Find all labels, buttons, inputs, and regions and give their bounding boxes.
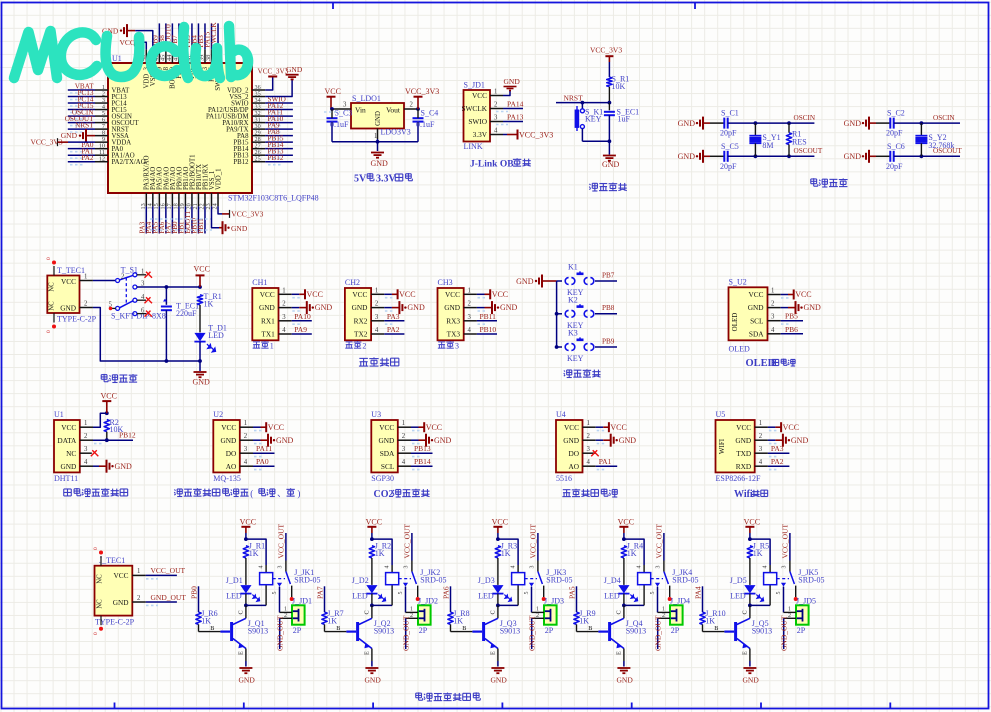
U1 bottom pin 14 PA4/AO bbox=[152, 193, 154, 206]
svg-text:VCC: VCC bbox=[352, 290, 367, 299]
svg-text:GND: GND bbox=[678, 119, 696, 128]
svg-text:VCC: VCC bbox=[564, 423, 579, 432]
svg-text:VCC: VCC bbox=[736, 423, 751, 432]
key K1 bbox=[557, 280, 562, 282]
U1 pin 24 VDD_1 to VCC_3V3 bbox=[218, 206, 222, 214]
svg-text:VCC_3V3: VCC_3V3 bbox=[231, 210, 263, 219]
svg-text:4: 4 bbox=[282, 327, 286, 334]
module U1 DHT11 bbox=[54, 420, 80, 472]
svg-text:KEY: KEY bbox=[585, 114, 602, 123]
LED J_D1 bbox=[240, 585, 251, 593]
svg-text:GND: GND bbox=[844, 119, 862, 128]
svg-text:GND: GND bbox=[619, 436, 637, 445]
svg-text:2: 2 bbox=[284, 613, 287, 619]
svg-text:VDD_1: VDD_1 bbox=[215, 168, 222, 190]
svg-text:2P: 2P bbox=[545, 626, 554, 635]
connector CH1 bbox=[252, 288, 278, 340]
crystal S_Y2 32.768k bbox=[920, 123, 922, 135]
svg-text:VCC: VCC bbox=[472, 91, 487, 100]
svg-text:3: 3 bbox=[282, 314, 286, 321]
svg-text:VCC: VCC bbox=[268, 423, 284, 432]
CH1 RX net PA10 bbox=[292, 320, 312, 322]
U1 bottom pin 20 PB2/BOOT1 bbox=[191, 193, 193, 206]
svg-text:1: 1 bbox=[536, 607, 539, 613]
title air quality module bbox=[174, 490, 175, 491]
key K3 bbox=[557, 346, 562, 348]
svg-text:GND: GND bbox=[791, 436, 809, 445]
svg-text:4: 4 bbox=[759, 459, 763, 466]
svg-text:NC: NC bbox=[97, 574, 104, 584]
svg-text:GND: GND bbox=[563, 436, 579, 445]
emitter GND bbox=[239, 667, 252, 669]
svg-text:1K: 1K bbox=[204, 299, 214, 308]
svg-text:RX2: RX2 bbox=[354, 316, 368, 325]
svg-text:VCC: VCC bbox=[445, 290, 460, 299]
svg-text:1: 1 bbox=[84, 273, 87, 280]
svg-text:Vin: Vin bbox=[355, 105, 366, 114]
svg-text:DHT11: DHT11 bbox=[54, 474, 78, 483]
emitter GND bbox=[617, 667, 630, 669]
svg-text:J_JD5: J_JD5 bbox=[796, 597, 816, 606]
svg-text:S9013: S9013 bbox=[752, 626, 772, 635]
svg-text:20pF: 20pF bbox=[886, 162, 903, 171]
capacitor S_C2 bbox=[876, 122, 890, 124]
svg-text:1uF: 1uF bbox=[618, 114, 631, 123]
svg-text:GND: GND bbox=[60, 462, 76, 471]
svg-text:DO: DO bbox=[226, 449, 237, 458]
svg-text:AO: AO bbox=[568, 462, 579, 471]
svg-text:GND: GND bbox=[259, 303, 275, 312]
connector J_JD1 2P bbox=[292, 605, 305, 624]
base net PB0 bbox=[198, 586, 200, 612]
base net PA6 bbox=[450, 586, 452, 612]
OLED SDA PB6 bbox=[781, 333, 803, 335]
svg-text:C: C bbox=[742, 610, 749, 614]
svg-text:NC: NC bbox=[49, 282, 56, 292]
svg-text:1: 1 bbox=[494, 89, 497, 96]
svg-text:GND: GND bbox=[500, 303, 518, 312]
svg-text:10K: 10K bbox=[612, 82, 626, 91]
svg-text:GND_OUT: GND_OUT bbox=[779, 615, 788, 651]
gnd S_C6 bbox=[869, 155, 876, 157]
svg-text:2: 2 bbox=[121, 273, 125, 280]
switch stubs and no-erc bbox=[137, 274, 146, 276]
LED J_D2 bbox=[366, 585, 377, 593]
svg-text:2: 2 bbox=[84, 433, 88, 440]
svg-text:KEY: KEY bbox=[567, 354, 584, 363]
svg-text:VCC_3V3: VCC_3V3 bbox=[258, 68, 289, 76]
svg-text:STM32F103C8T6_LQFP48: STM32F103C8T6_LQFP48 bbox=[228, 194, 319, 203]
U1 top GND port pin 47 bbox=[127, 30, 135, 32]
svg-text:VCC: VCC bbox=[101, 392, 117, 401]
svg-text:VCC: VCC bbox=[618, 517, 634, 526]
capacitor S_EC1 1uF bbox=[608, 103, 610, 111]
svg-text:1K: 1K bbox=[627, 549, 637, 558]
svg-text:0: 0 bbox=[46, 257, 52, 260]
svg-text:TX3: TX3 bbox=[447, 330, 461, 339]
svg-text:C: C bbox=[364, 610, 371, 614]
U1 right pin 34 SWIO bbox=[252, 102, 265, 104]
U2 net PA11 bbox=[253, 452, 275, 454]
J_TEC1 pin2 GND_OUT bbox=[132, 601, 146, 603]
svg-text:1: 1 bbox=[244, 420, 247, 427]
U4 GND bbox=[596, 439, 604, 441]
svg-text:4: 4 bbox=[637, 566, 643, 569]
U5 VCC bbox=[768, 426, 776, 428]
transistor J_Q4 S9013 bbox=[611, 618, 624, 624]
svg-text:GND: GND bbox=[315, 303, 333, 312]
connector CH3 bbox=[438, 288, 464, 340]
svg-text:GND_OUT: GND_OUT bbox=[527, 615, 536, 651]
svg-text:U3: U3 bbox=[371, 410, 381, 419]
svg-text:5: 5 bbox=[398, 592, 404, 595]
svg-text:PB11: PB11 bbox=[480, 312, 497, 321]
svg-text:GND: GND bbox=[231, 224, 248, 233]
svg-text:GND: GND bbox=[61, 131, 78, 140]
svg-text:SRD-05: SRD-05 bbox=[294, 576, 320, 585]
relay NO contact bbox=[669, 586, 671, 597]
U1 left pin 6 OSCOUT bbox=[95, 122, 108, 124]
svg-text:E: E bbox=[364, 651, 371, 655]
U1 top pin 42 PB6 bbox=[184, 49, 186, 63]
svg-text:VCC_OUT: VCC_OUT bbox=[151, 566, 186, 575]
pin2 GND_OUT bbox=[406, 617, 418, 619]
svg-text:3: 3 bbox=[759, 446, 763, 453]
svg-text:20pF: 20pF bbox=[720, 129, 737, 138]
svg-text:VCC: VCC bbox=[748, 290, 763, 299]
svg-text:、: 、 bbox=[277, 489, 286, 499]
module U2 MQ-135 bbox=[213, 420, 240, 472]
svg-text:1K: 1K bbox=[753, 549, 763, 558]
svg-text:PB6: PB6 bbox=[785, 325, 798, 334]
svg-text:PB0: PB0 bbox=[190, 586, 199, 599]
module U5 ESP8266-12F bbox=[716, 420, 755, 472]
svg-text:GND: GND bbox=[193, 378, 211, 387]
svg-text:4: 4 bbox=[84, 459, 88, 466]
U1 right VDD_2 to VCC_3V3 power bbox=[265, 77, 273, 91]
svg-text:VCC_OUT: VCC_OUT bbox=[403, 523, 412, 558]
svg-text:S_U2: S_U2 bbox=[729, 278, 747, 287]
svg-text:5: 5 bbox=[650, 592, 656, 595]
svg-text:PB12: PB12 bbox=[233, 159, 249, 166]
U4 net X bbox=[591, 450, 597, 456]
U3 net PB13 bbox=[411, 452, 433, 454]
U1 bottom pin 18 PB0/AO bbox=[178, 193, 180, 206]
svg-text:GND: GND bbox=[407, 303, 425, 312]
svg-text:T_TEC1: T_TEC1 bbox=[57, 266, 85, 275]
relay coil J_JK3 SRD-05 bbox=[512, 573, 525, 585]
svg-text:GND: GND bbox=[804, 303, 822, 312]
U1 right pin 30 PA9/TX bbox=[252, 128, 265, 130]
wire to relay coil J_JK5 bbox=[750, 539, 770, 565]
svg-text:2P: 2P bbox=[797, 626, 806, 635]
gnd S_C5 bbox=[703, 155, 710, 157]
svg-text:GND: GND bbox=[844, 152, 862, 161]
svg-text:PA10: PA10 bbox=[294, 312, 311, 321]
U2 VCC bbox=[253, 426, 261, 428]
wire to relay coil J_JK4 bbox=[624, 539, 644, 565]
U1 GND bbox=[93, 465, 99, 467]
svg-text:3.3V: 3.3V bbox=[376, 174, 397, 185]
U1 DATA PB12 bbox=[93, 439, 133, 441]
svg-text:VCC: VCC bbox=[610, 423, 626, 432]
svg-text:1: 1 bbox=[468, 287, 471, 294]
svg-text:GND_OUT: GND_OUT bbox=[401, 615, 410, 651]
svg-text:5: 5 bbox=[272, 592, 278, 595]
svg-text:GND: GND bbox=[617, 675, 634, 684]
svg-text:VCC_OUT: VCC_OUT bbox=[529, 523, 538, 558]
U1 left pin 4 PC15 bbox=[95, 109, 108, 111]
svg-text:B: B bbox=[714, 625, 718, 632]
collector wire bbox=[624, 604, 644, 606]
svg-text:2: 2 bbox=[137, 595, 141, 602]
switch pin3 output wire bbox=[137, 286, 200, 288]
svg-text:1: 1 bbox=[759, 420, 762, 427]
svg-text:VCC: VCC bbox=[379, 423, 394, 432]
svg-text:TX1: TX1 bbox=[261, 330, 275, 339]
svg-text:LED: LED bbox=[226, 592, 242, 601]
svg-text:2: 2 bbox=[375, 301, 379, 308]
svg-text:S_JD1: S_JD1 bbox=[464, 81, 485, 90]
U3 net PB14 bbox=[411, 465, 433, 467]
U1 pin 23 VSS_1 to GND bbox=[212, 206, 220, 227]
crystal S_Y1 8M bbox=[754, 123, 756, 135]
svg-text:4: 4 bbox=[763, 566, 769, 569]
svg-text:2: 2 bbox=[468, 301, 472, 308]
reset bottom gnd bbox=[582, 140, 609, 142]
svg-text:3: 3 bbox=[587, 446, 591, 453]
svg-text:3: 3 bbox=[375, 314, 379, 321]
svg-text:GND: GND bbox=[220, 436, 236, 445]
title reset circuit bbox=[589, 184, 590, 185]
svg-text:J_JD4: J_JD4 bbox=[670, 597, 690, 606]
relay NO contact bbox=[291, 586, 293, 597]
svg-text:VCC: VCC bbox=[399, 290, 415, 299]
svg-text:U2: U2 bbox=[213, 410, 223, 419]
svg-text:C: C bbox=[238, 610, 245, 614]
title light detect module bbox=[563, 489, 571, 491]
U1 right pin 32 PA11/USB/DM bbox=[252, 115, 265, 117]
connector J_JD5 2P bbox=[796, 605, 809, 624]
svg-text:(: ( bbox=[250, 489, 253, 499]
U1 bottom pin 17 PA7/AO bbox=[171, 193, 173, 206]
svg-text:GND: GND bbox=[678, 152, 696, 161]
svg-text:20pF: 20pF bbox=[720, 162, 737, 171]
svg-text:3: 3 bbox=[781, 566, 787, 569]
svg-text:VCC_3V3: VCC_3V3 bbox=[590, 46, 622, 55]
gnd S_C2 bbox=[869, 122, 876, 124]
svg-text:VCC: VCC bbox=[426, 423, 442, 432]
U2 GND bbox=[253, 439, 261, 441]
resistor S_R1 10K bbox=[607, 77, 612, 87]
svg-text:): ) bbox=[297, 489, 300, 499]
svg-text:E: E bbox=[490, 651, 497, 655]
U1 left pin 2 PC13 bbox=[95, 96, 108, 98]
resistor J_R8 1K bbox=[448, 612, 453, 624]
svg-text:GND: GND bbox=[276, 436, 294, 445]
power port VCC_3V3 bbox=[414, 96, 423, 98]
svg-text:1: 1 bbox=[270, 342, 274, 351]
svg-text:0: 0 bbox=[93, 547, 99, 550]
svg-text:SDA: SDA bbox=[749, 329, 764, 338]
collector wire bbox=[246, 604, 266, 606]
svg-text:S_KFT DIP-8X8: S_KFT DIP-8X8 bbox=[111, 312, 166, 321]
svg-text:3: 3 bbox=[343, 102, 347, 109]
svg-text:PB10: PB10 bbox=[480, 325, 497, 334]
svg-text:0: 0 bbox=[46, 330, 52, 333]
svg-text:VCC: VCC bbox=[61, 423, 76, 432]
U1 bottom pin 16 PA6/AO bbox=[165, 193, 167, 206]
svg-text:NC: NC bbox=[97, 599, 104, 609]
U1 top pin 37 SWCLK bbox=[217, 49, 219, 63]
bottom gnd bbox=[199, 361, 201, 371]
U5 net PA3 bbox=[768, 452, 790, 454]
U1 top pin 45 PB8 bbox=[165, 49, 167, 63]
svg-text:GND: GND bbox=[375, 111, 382, 126]
U1 left pin 5 OSCIN bbox=[95, 115, 108, 117]
U1 top pin 38 PA15 bbox=[211, 49, 213, 63]
svg-text:5V: 5V bbox=[354, 174, 367, 185]
relay coil J_JK4 SRD-05 bbox=[638, 573, 651, 585]
capacitor S_C1 bbox=[710, 122, 724, 124]
transistor J_Q1 S9013 bbox=[233, 618, 246, 624]
resistor R2 10K bbox=[104, 420, 109, 432]
svg-text:OSCOUT: OSCOUT bbox=[794, 147, 823, 155]
title key circuit bbox=[564, 371, 565, 372]
module U4 5516 bbox=[556, 420, 583, 472]
svg-text:1: 1 bbox=[587, 420, 590, 427]
svg-text:VCC_OUT: VCC_OUT bbox=[277, 523, 286, 558]
svg-text:C: C bbox=[616, 610, 623, 614]
svg-text:S_C5: S_C5 bbox=[721, 142, 739, 151]
U1 right pin 25 PB12 bbox=[252, 161, 265, 163]
svg-text:12: 12 bbox=[99, 156, 105, 163]
svg-text:S9013: S9013 bbox=[374, 626, 394, 635]
relay NO contact bbox=[795, 586, 797, 597]
svg-text:GND: GND bbox=[504, 77, 521, 86]
U1 top pin 40 PB4 bbox=[197, 49, 199, 63]
U1 top pin 41 PB5 bbox=[191, 49, 193, 63]
svg-text:4: 4 bbox=[402, 459, 406, 466]
CH2 GND net bbox=[384, 307, 392, 309]
svg-text:VCC: VCC bbox=[194, 265, 210, 274]
svg-text:4: 4 bbox=[244, 459, 248, 466]
connector T_TEC1 TYPE-C-2P bbox=[47, 276, 79, 314]
U1 NC no-erc bbox=[91, 450, 97, 456]
U1 right pin 31 PA10/RX bbox=[252, 122, 265, 124]
svg-text:PA5: PA5 bbox=[568, 586, 577, 599]
svg-text:J_JD3: J_JD3 bbox=[544, 597, 564, 606]
svg-text:S_C1: S_C1 bbox=[721, 109, 739, 118]
OSCIN wire bbox=[728, 122, 815, 124]
svg-text:SRD-05: SRD-05 bbox=[672, 576, 698, 585]
resistor R1 RES bbox=[787, 154, 791, 158]
svg-text:OSCIN: OSCIN bbox=[933, 114, 955, 122]
svg-text:NC: NC bbox=[49, 301, 56, 311]
relay coil J_JK1 SRD-05 bbox=[260, 573, 273, 585]
module U3 SGP30 bbox=[371, 420, 398, 472]
OSCOUT wire bbox=[894, 155, 960, 157]
svg-text:GND: GND bbox=[748, 303, 764, 312]
svg-text:SRD-05: SRD-05 bbox=[546, 576, 572, 585]
svg-text:VCC_3V3: VCC_3V3 bbox=[405, 87, 439, 96]
pin2 GND_OUT bbox=[784, 617, 796, 619]
title temperature humidity module bbox=[64, 488, 72, 490]
base net PA7 bbox=[324, 586, 326, 612]
svg-text:U4: U4 bbox=[556, 410, 566, 419]
svg-text:K3: K3 bbox=[568, 329, 578, 338]
connector J_JD4 2P bbox=[670, 605, 683, 624]
svg-text:PA9: PA9 bbox=[294, 325, 307, 334]
svg-text:5: 5 bbox=[776, 592, 782, 595]
svg-text:5: 5 bbox=[524, 592, 530, 595]
U1 top pin 44 BOOT0 bbox=[171, 49, 173, 63]
OSCIN wire bbox=[894, 122, 960, 124]
svg-text:LED: LED bbox=[352, 592, 368, 601]
svg-text:K2: K2 bbox=[568, 295, 578, 304]
svg-text:4: 4 bbox=[494, 128, 498, 135]
capacitor S_C6 bbox=[876, 155, 890, 157]
svg-text:SGP30: SGP30 bbox=[371, 474, 394, 483]
U1 right VSS_2 to GND bbox=[265, 79, 292, 96]
J_TEC1 pin1 VCC_OUT bbox=[132, 574, 146, 576]
svg-text:2: 2 bbox=[244, 433, 248, 440]
MCU U1 STM32F103C8T6_LQFP48 bbox=[108, 63, 252, 193]
svg-text:B: B bbox=[462, 625, 466, 632]
key K2 bbox=[557, 313, 562, 315]
resistor J_R5 1K bbox=[747, 546, 752, 558]
svg-text:3: 3 bbox=[771, 314, 775, 321]
svg-text:SRD-05: SRD-05 bbox=[798, 576, 824, 585]
key wire PB9 bbox=[595, 346, 617, 348]
svg-text:GND_OUT: GND_OUT bbox=[653, 615, 662, 651]
svg-text:PB9: PB9 bbox=[602, 337, 615, 345]
svg-text:5516: 5516 bbox=[556, 474, 572, 483]
T_TEC1 pin1 wire to switch bbox=[80, 280, 93, 282]
svg-text:3: 3 bbox=[468, 314, 472, 321]
svg-text:LDO3V3: LDO3V3 bbox=[381, 128, 411, 137]
svg-text:RX1: RX1 bbox=[261, 316, 275, 325]
svg-text:2P: 2P bbox=[671, 626, 680, 635]
U1 left pin 3 PC14 bbox=[95, 102, 108, 104]
svg-text:CH3: CH3 bbox=[438, 278, 453, 287]
U3 VCC bbox=[411, 426, 419, 428]
svg-text:LED: LED bbox=[730, 592, 746, 601]
U1 right pin 29 PA8 bbox=[252, 135, 265, 137]
svg-text:32.768k: 32.768k bbox=[928, 141, 954, 150]
JD1 pin1 to GND bbox=[503, 91, 510, 96]
logo MCUclub (drawn last, on top) bbox=[14, 26, 248, 78]
connector J_JD2 2P bbox=[418, 605, 431, 624]
CH3 TX net PB10 bbox=[477, 333, 497, 335]
svg-text:VCC: VCC bbox=[120, 38, 135, 47]
svg-text:1K: 1K bbox=[375, 549, 385, 558]
svg-text:GND_OUT: GND_OUT bbox=[275, 615, 284, 651]
CH3 VCC net bbox=[477, 293, 485, 295]
U1 VCC pullup bbox=[93, 413, 107, 427]
OLED VCC net bbox=[781, 294, 788, 296]
svg-text:1: 1 bbox=[137, 568, 140, 575]
collector wire bbox=[372, 604, 392, 606]
capacitor T_EC1 220uF bbox=[165, 287, 167, 305]
svg-text:GND: GND bbox=[239, 675, 256, 684]
svg-text:4: 4 bbox=[511, 566, 517, 569]
svg-text:1K: 1K bbox=[501, 549, 511, 558]
svg-text:GND: GND bbox=[434, 436, 452, 445]
svg-text:4: 4 bbox=[385, 566, 391, 569]
svg-text:J_TEC1: J_TEC1 bbox=[99, 556, 125, 565]
svg-text:VCC_OUT: VCC_OUT bbox=[655, 523, 664, 558]
